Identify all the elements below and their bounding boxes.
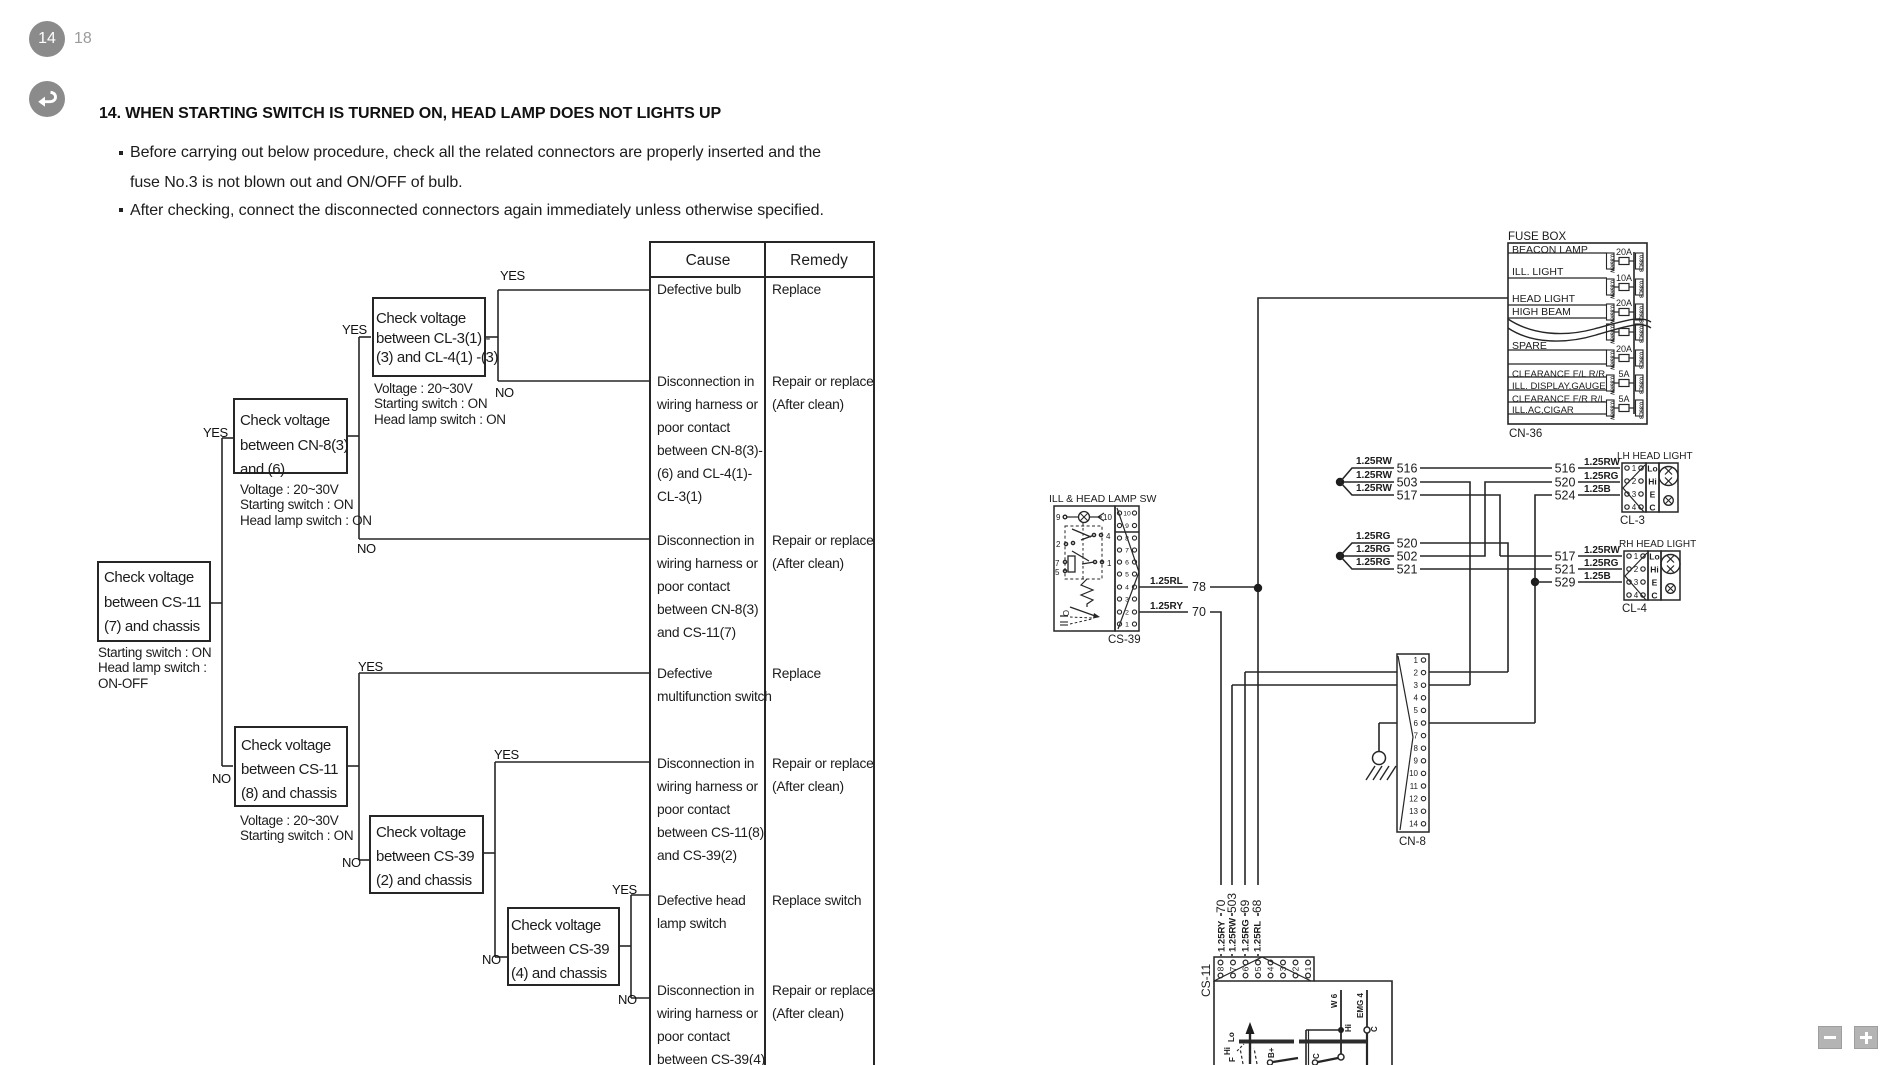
wire box3 stub bbox=[486, 336, 498, 338]
table row remedy at 370 bbox=[772, 370, 874, 416]
svg-text:C: C bbox=[1649, 503, 1655, 513]
flowchart label YES at 358,659 bbox=[358, 659, 383, 674]
svg-text:1.25RW: 1.25RW bbox=[1228, 918, 1239, 952]
fuse spare at y=332 bbox=[1607, 324, 1644, 344]
svg-text:6: 6 bbox=[1125, 560, 1129, 567]
wire 520 upper bbox=[1340, 543, 1508, 672]
lever arrow Lo bbox=[1249, 1030, 1251, 1064]
svg-text:1: 1 bbox=[1125, 622, 1129, 629]
header Cause bbox=[651, 252, 765, 270]
wire into box2 bbox=[222, 437, 233, 439]
svg-text:524: 524 bbox=[1555, 489, 1576, 503]
wire box3 branch vertical bbox=[497, 290, 499, 381]
flowchart condition note at 240,482 bbox=[240, 482, 372, 528]
wire label 69 (1.25RG) bbox=[1239, 885, 1251, 913]
wire box1 branch vertical bbox=[221, 438, 223, 766]
wire box4 branch vertical bbox=[358, 673, 360, 860]
wire 524 bbox=[1535, 495, 1620, 723]
svg-text:1.25RG: 1.25RG bbox=[1356, 531, 1391, 542]
svg-text:516: 516 bbox=[1397, 462, 1418, 476]
resistor zigzag in switch bbox=[1081, 579, 1093, 607]
svg-text:1.25B: 1.25B bbox=[1584, 571, 1611, 582]
svg-text:529: 529 bbox=[1555, 576, 1576, 590]
flowchart label YES at 342,322 bbox=[342, 322, 367, 337]
wire box2 branch vertical bbox=[358, 337, 360, 539]
svg-text:Lo: Lo bbox=[1647, 464, 1657, 474]
svg-text:0.85RW: 0.85RW bbox=[1608, 254, 1614, 273]
svg-text:B+: B+ bbox=[1267, 1047, 1276, 1058]
table row cause at 278 bbox=[657, 278, 741, 301]
table row cause at 889 bbox=[657, 889, 746, 935]
flowchart box CS-39(2) bbox=[369, 815, 484, 894]
svg-text:68: 68 bbox=[1250, 899, 1264, 913]
table header underline bbox=[649, 276, 873, 278]
svg-text:BEACON LAMP: BEACON LAMP bbox=[1512, 244, 1588, 256]
svg-text:5: 5 bbox=[1055, 568, 1060, 577]
flowchart label YES at 500,268 bbox=[500, 268, 525, 283]
svg-text:0.85RW: 0.85RW bbox=[1608, 305, 1614, 324]
svg-text:ILL. LIGHT: ILL. LIGHT bbox=[1512, 266, 1564, 278]
wire box6-YES to table bbox=[631, 894, 649, 896]
flowchart label NO at 482,952 bbox=[482, 952, 501, 967]
wire box3-YES to table bbox=[498, 289, 649, 291]
node Hi junction bbox=[1338, 1027, 1344, 1033]
svg-text:7: 7 bbox=[1414, 731, 1419, 740]
page badge circle 14 bbox=[29, 21, 65, 57]
svg-text:1.25RG: 1.25RG bbox=[1241, 919, 1252, 952]
flowchart label NO at 495,385 bbox=[495, 385, 514, 400]
back button circle bbox=[29, 81, 65, 117]
wire label 68 (1.25RL) bbox=[1251, 885, 1263, 913]
flowchart label NO at 342,855 bbox=[342, 855, 361, 870]
svg-text:C: C bbox=[1312, 1053, 1321, 1059]
svg-text:4: 4 bbox=[1414, 694, 1419, 703]
table row cause at 662 bbox=[657, 662, 772, 708]
wire 516 bbox=[1340, 468, 1620, 482]
svg-text:RH HEAD LIGHT: RH HEAD LIGHT bbox=[1619, 539, 1696, 550]
svg-text:Lo: Lo bbox=[1649, 552, 1659, 562]
wire to ground bbox=[1378, 723, 1380, 751]
svg-text:14: 14 bbox=[1409, 820, 1418, 829]
svg-text:CLEARANCE F/R R/L: CLEARANCE F/R R/L bbox=[1512, 394, 1605, 405]
svg-text:10: 10 bbox=[1409, 769, 1418, 778]
table row cause at 529 bbox=[657, 529, 758, 644]
wire numbers and labels at CL-4 bbox=[1552, 550, 1578, 563]
wire from Hi junction bbox=[1306, 1029, 1341, 1031]
wire box6 stub bbox=[620, 945, 631, 947]
wire numbers and labels at CL-3 bbox=[1552, 462, 1578, 475]
wire box4 stub bbox=[348, 765, 359, 767]
svg-text:5: 5 bbox=[1125, 572, 1129, 579]
wire CN-8 pin2 right bbox=[1429, 671, 1508, 673]
svg-text:CN-36: CN-36 bbox=[1509, 428, 1542, 440]
svg-text:W 6: W 6 bbox=[1330, 993, 1339, 1008]
connector CS-11 bbox=[1199, 957, 1314, 997]
svg-text:5A: 5A bbox=[1618, 394, 1629, 404]
svg-text:2: 2 bbox=[1056, 540, 1061, 549]
svg-text:503: 503 bbox=[1225, 893, 1239, 913]
svg-text:0.85RW: 0.85RW bbox=[1608, 280, 1614, 299]
svg-text:1.25RG: 1.25RG bbox=[1584, 558, 1619, 569]
svg-text:5A: 5A bbox=[1618, 369, 1629, 379]
wire 502/520 to CL-3 bbox=[1344, 482, 1620, 556]
svg-text:7: 7 bbox=[1055, 559, 1060, 568]
flowchart label NO at 212,771 bbox=[212, 771, 231, 786]
svg-text:502: 502 bbox=[1397, 550, 1418, 564]
flowchart box CS-11(7) bbox=[97, 561, 211, 642]
wire 78 (1.25RL) bbox=[1139, 586, 1254, 588]
svg-text:CS-11: CS-11 bbox=[1199, 964, 1213, 997]
svg-text:517: 517 bbox=[1397, 489, 1418, 503]
junction node wire 78/68 bbox=[1254, 584, 1262, 592]
lever slot band bbox=[1239, 1040, 1294, 1044]
table row remedy at 979 bbox=[772, 979, 874, 1025]
flowchart label YES at 203,425 bbox=[203, 425, 228, 440]
table row remedy at 278 bbox=[772, 278, 821, 301]
wire 503 upper bbox=[1344, 482, 1470, 685]
svg-text:0.85RW: 0.85RW bbox=[1608, 351, 1614, 370]
flowchart box CN-8(3)(6) bbox=[233, 398, 348, 474]
svg-text:1.25B: 1.25B bbox=[1584, 484, 1611, 495]
wire 503 from CN-8 pin3 bbox=[1232, 684, 1397, 686]
svg-text:503: 503 bbox=[1397, 476, 1418, 490]
svg-text:5: 5 bbox=[1414, 706, 1419, 715]
svg-text:516: 516 bbox=[1555, 462, 1576, 476]
svg-text:LH HEAD LIGHT: LH HEAD LIGHT bbox=[1617, 451, 1693, 462]
svg-text:HEAD LIGHT: HEAD LIGHT bbox=[1512, 293, 1576, 305]
svg-text:0.85LB: 0.85LB bbox=[1637, 255, 1643, 272]
zoom in button bbox=[1854, 1026, 1878, 1049]
svg-text:0.85LB: 0.85LB bbox=[1637, 377, 1643, 394]
svg-text:521: 521 bbox=[1555, 563, 1576, 577]
flowchart label YES at 494,747 bbox=[494, 747, 519, 762]
fuse 20A at y=312 bbox=[1607, 298, 1644, 324]
svg-text:12: 12 bbox=[1409, 794, 1418, 803]
wire box5-YES to table bbox=[495, 761, 649, 763]
svg-text:3: 3 bbox=[1414, 681, 1419, 690]
page count 18 bbox=[74, 30, 92, 48]
svg-text:520: 520 bbox=[1555, 476, 1576, 490]
table row cause at 979 bbox=[657, 979, 765, 1065]
table frame bbox=[649, 241, 875, 1065]
switch ILL & HEAD LAMP SW bbox=[1049, 493, 1156, 631]
svg-text:1: 1 bbox=[1107, 559, 1112, 568]
bullet 2 bbox=[119, 208, 123, 212]
wire box4-YES to table bbox=[359, 672, 649, 674]
connector CN-8 key line bbox=[1398, 656, 1413, 830]
table row remedy at 662 bbox=[772, 662, 821, 685]
svg-text:Hi: Hi bbox=[1650, 565, 1659, 575]
flowchart box CS-11(8) bbox=[234, 726, 348, 807]
wire label 503 (1.25RW) bbox=[1226, 885, 1238, 913]
svg-text:E: E bbox=[1650, 490, 1656, 500]
junction node 529 bbox=[1531, 578, 1539, 586]
wire CN-8 pin6 right bbox=[1429, 722, 1535, 724]
svg-text:520: 520 bbox=[1397, 537, 1418, 551]
svg-text:0.85LB: 0.85LB bbox=[1637, 352, 1643, 369]
wire W 6 bbox=[1340, 990, 1342, 1054]
svg-text:CLEARANCE F/L R/R: CLEARANCE F/L R/R bbox=[1512, 369, 1605, 380]
svg-text:3: 3 bbox=[1634, 578, 1639, 587]
svg-text:EMG 4: EMG 4 bbox=[1356, 993, 1365, 1018]
svg-text:1: 1 bbox=[1632, 464, 1637, 473]
wire CN-8 ground stub bbox=[1379, 722, 1397, 724]
svg-text:9: 9 bbox=[1414, 757, 1419, 766]
wire 517 into CL-4 bbox=[1500, 555, 1622, 557]
connector CN-8 bbox=[1397, 654, 1429, 848]
svg-text:1.25RW: 1.25RW bbox=[1356, 456, 1393, 467]
svg-text:4: 4 bbox=[1266, 966, 1276, 971]
svg-text:5: 5 bbox=[1253, 966, 1263, 971]
svg-text:0.85LB: 0.85LB bbox=[1637, 402, 1643, 419]
svg-text:2: 2 bbox=[1291, 966, 1301, 971]
node junction 1.25RW fan bbox=[1336, 478, 1344, 486]
svg-text:1.25RW: 1.25RW bbox=[1356, 483, 1393, 494]
svg-text:ILL & HEAD LAMP SW: ILL & HEAD LAMP SW bbox=[1049, 493, 1156, 505]
svg-text:0.85RW: 0.85RW bbox=[1608, 401, 1614, 420]
wire into box3 bbox=[359, 336, 371, 338]
wire box6 branch vertical bbox=[630, 895, 632, 998]
svg-text:78: 78 bbox=[1192, 580, 1206, 594]
wire 529 bbox=[1535, 581, 1622, 583]
svg-text:1.25RW: 1.25RW bbox=[1356, 470, 1393, 481]
wire box6-NO to table bbox=[631, 997, 649, 999]
wire into box4 bbox=[222, 765, 233, 767]
svg-text:Hi: Hi bbox=[1648, 477, 1657, 487]
svg-text:1.25RY: 1.25RY bbox=[1150, 601, 1183, 612]
svg-text:Hi: Hi bbox=[1344, 1024, 1353, 1032]
fuse 10A at y=287 bbox=[1607, 273, 1644, 299]
svg-text:20A: 20A bbox=[1616, 344, 1632, 354]
svg-text:1: 1 bbox=[1303, 966, 1313, 971]
wire 69 vertical bbox=[1244, 672, 1246, 956]
svg-text:10: 10 bbox=[1103, 513, 1112, 522]
wire box2-NO to table bbox=[359, 538, 649, 540]
svg-text:13: 13 bbox=[1409, 807, 1418, 816]
connector CS-39 key line bbox=[1117, 508, 1139, 629]
wire box2 stub bbox=[348, 435, 359, 437]
svg-text:0.85RW: 0.85RW bbox=[1608, 325, 1614, 344]
wire label 70 (1.25RY) bbox=[1215, 885, 1227, 913]
svg-text:10: 10 bbox=[1123, 511, 1131, 518]
svg-text:517: 517 bbox=[1555, 550, 1576, 564]
svg-text:O: O bbox=[1061, 610, 1070, 616]
svg-text:20A: 20A bbox=[1616, 247, 1632, 257]
flowchart label NO at 357,541 bbox=[357, 541, 376, 556]
wire EMG 4 bbox=[1366, 990, 1368, 1027]
wire into box6 bbox=[495, 956, 507, 958]
svg-text:1.25RG: 1.25RG bbox=[1356, 544, 1391, 555]
svg-text:1.25RY: 1.25RY bbox=[1217, 920, 1228, 952]
svg-text:4: 4 bbox=[1125, 585, 1129, 592]
svg-text:C: C bbox=[1651, 591, 1657, 601]
bullet 1 bbox=[119, 151, 123, 155]
svg-text:7: 7 bbox=[1125, 548, 1129, 555]
svg-text:1.25RL: 1.25RL bbox=[1150, 576, 1183, 587]
wire 69 from CN-8 pin2 bbox=[1245, 671, 1397, 673]
header Remedy bbox=[766, 252, 872, 270]
wire net 68 from fuse box HEAD LIGHT bbox=[1258, 298, 1508, 956]
fuse 5A at y=383 bbox=[1607, 369, 1644, 395]
svg-text:F: F bbox=[1228, 1057, 1237, 1062]
svg-text:6: 6 bbox=[1414, 719, 1419, 728]
wire box5 branch vertical bbox=[494, 762, 496, 957]
connector CL-3 (LH HEAD LIGHT) bbox=[1617, 451, 1693, 527]
flowchart condition note at 240,813 bbox=[240, 813, 353, 844]
svg-text:0.85LB: 0.85LB bbox=[1637, 306, 1643, 323]
svg-text:CN-8: CN-8 bbox=[1399, 836, 1426, 848]
svg-text:HIGH BEAM: HIGH BEAM bbox=[1512, 306, 1571, 318]
svg-text:10A: 10A bbox=[1616, 273, 1632, 283]
svg-text:1.25RG: 1.25RG bbox=[1356, 557, 1391, 568]
svg-text:8: 8 bbox=[1414, 744, 1419, 753]
connector CL-4 (RH HEAD LIGHT) bbox=[1619, 539, 1696, 615]
wire box1 stub bbox=[211, 602, 222, 604]
svg-text:2: 2 bbox=[1125, 610, 1129, 617]
table row remedy at 889 bbox=[772, 889, 861, 912]
svg-text:1.25RL: 1.25RL bbox=[1253, 921, 1264, 952]
svg-text:Hi: Hi bbox=[1223, 1047, 1232, 1055]
svg-text:1: 1 bbox=[1634, 552, 1639, 561]
svg-text:CS-39: CS-39 bbox=[1108, 634, 1141, 646]
fuse bus bar bbox=[1633, 252, 1635, 414]
svg-text:4: 4 bbox=[1106, 532, 1111, 541]
wire box5 stub bbox=[484, 852, 495, 854]
svg-text:1.25RG: 1.25RG bbox=[1584, 471, 1619, 482]
wire numbers 520/502/521 bbox=[1394, 537, 1420, 550]
svg-text:0.85LB: 0.85LB bbox=[1637, 281, 1643, 298]
svg-text:CL-4: CL-4 bbox=[1622, 603, 1648, 615]
connector CS-39 bbox=[1108, 506, 1141, 646]
svg-text:1.25RW: 1.25RW bbox=[1584, 457, 1621, 468]
svg-text:9: 9 bbox=[1056, 513, 1061, 522]
fuse 5A at y=408 bbox=[1607, 394, 1644, 420]
svg-text:CL-3: CL-3 bbox=[1620, 515, 1645, 527]
flowchart box CL-3/CL-4 bbox=[372, 297, 486, 377]
wire CN-8 pin3 right bbox=[1429, 684, 1470, 686]
flowchart label NO at 618,992 bbox=[618, 992, 637, 1007]
contact C (EMG) bbox=[1364, 1027, 1370, 1033]
zoom out button bbox=[1818, 1026, 1842, 1049]
wire into box5 bbox=[359, 859, 369, 861]
fuse box CN-36 bbox=[1508, 231, 1647, 424]
svg-text:3: 3 bbox=[1632, 490, 1637, 499]
svg-text:Lo: Lo bbox=[1227, 1032, 1236, 1042]
svg-text:1.25RW: 1.25RW bbox=[1584, 545, 1621, 556]
svg-text:E: E bbox=[1652, 578, 1658, 588]
wire 517 upper bbox=[1340, 482, 1500, 556]
wire 503 vertical bbox=[1231, 685, 1233, 956]
svg-text:FUSE BOX: FUSE BOX bbox=[1508, 231, 1566, 243]
svg-text:0.85LB: 0.85LB bbox=[1637, 326, 1643, 343]
node junction 1.25RG fan bbox=[1336, 552, 1344, 560]
fuse 20A at y=358 bbox=[1607, 344, 1644, 370]
svg-text:521: 521 bbox=[1397, 563, 1418, 577]
svg-text:C: C bbox=[1370, 1026, 1379, 1032]
svg-text:9: 9 bbox=[1125, 523, 1129, 530]
wire numbers 516/503/517 bbox=[1394, 462, 1420, 475]
table row remedy at 752 bbox=[772, 752, 874, 798]
svg-text:70: 70 bbox=[1192, 605, 1206, 619]
fuse 20A at y=261 bbox=[1607, 247, 1644, 273]
wire box3-NO to table bbox=[498, 380, 649, 382]
svg-text:2: 2 bbox=[1414, 668, 1419, 677]
svg-text:4: 4 bbox=[1632, 503, 1637, 512]
wire 521 bbox=[1340, 556, 1622, 569]
svg-text:1: 1 bbox=[1414, 656, 1419, 665]
svg-text:8: 8 bbox=[1216, 966, 1226, 971]
flowchart label YES at 612,882 bbox=[612, 882, 637, 897]
table row remedy at 529 bbox=[772, 529, 874, 575]
svg-text:20A: 20A bbox=[1616, 298, 1632, 308]
table row cause at 370 bbox=[657, 370, 763, 508]
title bbox=[99, 105, 721, 123]
flowchart condition note at 374,381 bbox=[374, 381, 506, 427]
fuse box wave break bbox=[1508, 319, 1651, 334]
wire 70 (1.25RY) bbox=[1139, 612, 1221, 956]
table row cause at 752 bbox=[657, 752, 764, 867]
table column divider bbox=[764, 241, 766, 1065]
flowchart condition note at 98,645 bbox=[98, 645, 211, 691]
flowchart box CS-39(4) bbox=[507, 907, 620, 986]
svg-text:4: 4 bbox=[1634, 591, 1639, 600]
svg-text:0.85RW: 0.85RW bbox=[1608, 376, 1614, 395]
ground symbol bbox=[1366, 752, 1396, 781]
multifunction switch assembly box bbox=[1213, 981, 1215, 1065]
svg-text:7: 7 bbox=[1228, 966, 1238, 971]
svg-text:11: 11 bbox=[1410, 782, 1419, 791]
